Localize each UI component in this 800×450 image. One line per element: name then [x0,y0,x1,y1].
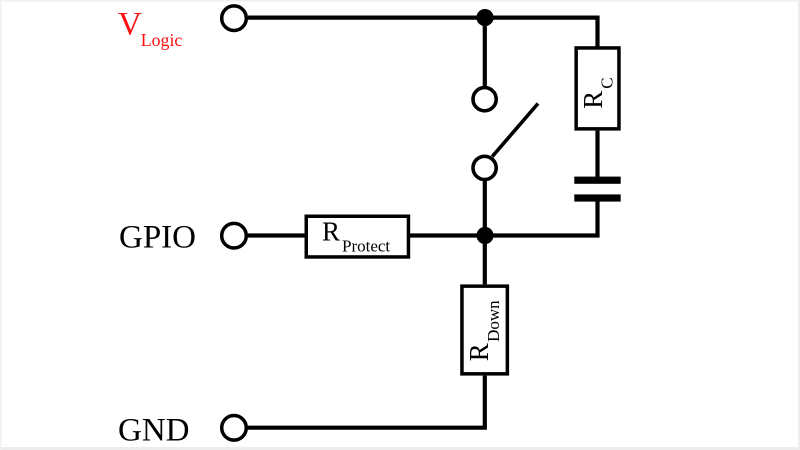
capacitor C1 bottom plate [574,194,620,201]
page edge tint right [798,0,800,450]
resistor R_Down body [462,286,507,374]
wire V_Logic terminal to junction [248,16,485,20]
switch SW1 bottom contact [473,156,496,179]
switch SW1 lever [492,104,538,157]
wire switch to GPIO junction [483,181,487,236]
junction dot GPIO [476,227,493,244]
page edge tint bottom [0,447,800,450]
svg-text:C: C [597,77,616,88]
wire junction to R_C branch corner [485,18,598,47]
wire R_C to capacitor [595,131,599,177]
switch SW1 top contact [473,88,496,111]
page edge tint left [0,0,2,450]
svg-text:R: R [464,343,494,361]
resistor R_Protect body [306,216,408,257]
resistor R_Down label [464,300,503,361]
svg-text:Protect: Protect [342,236,390,255]
wire junction down to switch [483,18,487,87]
svg-text:V: V [118,7,142,43]
svg-text:R: R [578,91,608,109]
resistor R_C label [578,77,616,108]
wire R_Down to GND rail [248,376,485,428]
wire GPIO terminal to R_Protect [248,233,305,237]
svg-text:GPIO: GPIO [119,219,196,255]
wire R_Protect to junction [410,233,485,237]
terminal GND [222,416,247,441]
terminal V_Logic [222,6,247,31]
wire capacitor to GPIO rail [485,201,598,236]
junction dot top [476,9,493,26]
capacitor C1 top plate [574,177,620,184]
page edge tint top [0,0,800,2]
svg-text:Logic: Logic [141,30,183,50]
svg-text:Down: Down [484,300,503,342]
terminal GPIO [222,223,247,248]
resistor R_C body [576,48,619,129]
svg-text:GND: GND [118,413,190,449]
wire junction to R_Down [483,236,487,285]
svg-text:R: R [322,216,340,246]
